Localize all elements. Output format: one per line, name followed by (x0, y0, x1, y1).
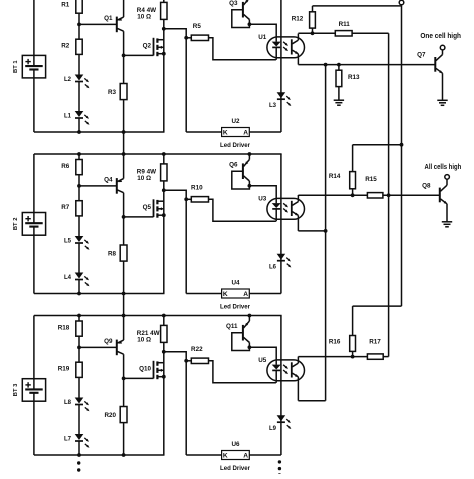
svg-text:Q11: Q11 (226, 323, 238, 330)
resistor R11 (335, 21, 352, 36)
node Q4 collector / gate (122, 215, 126, 219)
terminal all cells high (445, 175, 450, 180)
wire top rail section 3 (34, 315, 282, 317)
resistor R9 (137, 154, 167, 190)
svg-text:K: K (223, 130, 228, 137)
wire U5 collector up (297, 357, 299, 364)
node bottom rail / R3 (122, 130, 126, 134)
transistor Q7 (NPN) (417, 52, 443, 75)
wire U3 emitter down (297, 215, 299, 231)
led driver U4 (220, 280, 250, 311)
svg-text:R14: R14 (329, 173, 341, 180)
node Q1 collector / gate (122, 54, 126, 58)
transistor Q2 (N-MOSFET) (143, 29, 164, 56)
svg-text:R15: R15 (365, 176, 377, 183)
wire R20 to bottom rail (123, 423, 125, 455)
svg-text:R13: R13 (348, 74, 360, 81)
svg-text:R5: R5 (193, 23, 202, 30)
svg-text:R22: R22 (191, 346, 203, 353)
ground below Q7 (437, 99, 447, 101)
wire R2 to L2 (78, 54, 80, 75)
wire Q2 source to bottom rail (163, 54, 165, 132)
wire R18 to base node (78, 336, 80, 362)
transistor Q8 (NPN) (422, 182, 448, 205)
wire node down to led driver (185, 199, 187, 293)
svg-text:R1: R1 (61, 2, 70, 9)
wire U1 collector up (297, 34, 299, 41)
resistor R22 (186, 346, 208, 363)
node Q2 source (162, 52, 166, 56)
transistor Q3 (PNP diode-connected) (229, 0, 249, 28)
wire L8 to L7 (78, 405, 80, 435)
wire U1 emitter down (297, 54, 299, 65)
node R4 / drain (162, 27, 166, 31)
wire R11 to bus A (352, 32, 389, 34)
transistor Q6 (PNP diode-connected) (229, 160, 249, 190)
wire U5 emitter down (297, 377, 299, 401)
svg-text:Q1: Q1 (104, 15, 113, 22)
wire led driver A lead (249, 131, 281, 133)
optocoupler U3 (258, 195, 304, 221)
svg-text:U3: U3 (258, 195, 267, 202)
wire drain node right (164, 352, 186, 361)
led driver U6 (220, 441, 250, 472)
svg-text:U5: U5 (258, 357, 267, 364)
node base junction (77, 346, 81, 350)
node continuation dots left (77, 461, 80, 464)
svg-text:R17: R17 (369, 339, 381, 346)
battery BT2 (13, 154, 45, 294)
node top rail / R6 (77, 152, 81, 156)
node Q5 source (162, 213, 166, 217)
svg-text:R7: R7 (61, 204, 70, 211)
battery BT1 (13, 0, 45, 132)
wire Q5 source to bottom rail (163, 215, 165, 293)
node emitter bus / U3 (324, 229, 328, 233)
wire bus A vertical (388, 33, 390, 356)
svg-text:R3: R3 (108, 89, 117, 96)
svg-text:Q10: Q10 (139, 366, 151, 373)
svg-text:One cell high: One cell high (420, 33, 461, 40)
wire R7 to L5 (78, 216, 80, 237)
svg-text:R16: R16 (329, 339, 341, 346)
node Q3 collector-base (248, 22, 252, 26)
node top rail / R9 (162, 152, 166, 156)
node bottom rail / L1 (77, 130, 81, 134)
ground below Q8 (442, 221, 452, 223)
svg-text:R20: R20 (104, 412, 116, 419)
wire led driver K lead (186, 131, 221, 133)
wire led driver A lead (249, 454, 281, 456)
svg-text:L9: L9 (269, 426, 277, 432)
svg-text:10 Ω: 10 Ω (137, 14, 151, 21)
wire base node to Q4 (79, 185, 117, 187)
svg-text:U6: U6 (231, 441, 240, 448)
svg-text:U2: U2 (231, 118, 240, 125)
led L6 (269, 254, 292, 271)
led L3 (269, 92, 292, 109)
svg-text:K: K (223, 291, 228, 298)
wire L5 to L4 (78, 243, 80, 273)
wire Q4 emitter up (123, 154, 125, 179)
resistor R21 (137, 316, 167, 352)
led L7 (64, 434, 90, 449)
wire R5 to opto LED cathode (209, 38, 276, 60)
svg-text:L5: L5 (64, 239, 72, 245)
node base junction (77, 23, 81, 27)
resistor R15 (365, 176, 383, 198)
svg-text:K: K (223, 453, 228, 460)
node bottom rail / L4 (77, 292, 81, 296)
transistor Q9 (PNP) (104, 338, 124, 355)
resistor R6 (61, 154, 82, 175)
transistor Q4 (PNP) (104, 176, 124, 193)
wire bottom rail section 2 (34, 293, 165, 295)
wire U3 emitter to bus (298, 230, 325, 232)
transistor Q11 (PNP diode-connected) (226, 321, 249, 351)
resistor R8 (108, 245, 127, 261)
wire R22 to opto LED cathode (209, 361, 276, 383)
svg-text:A: A (243, 291, 248, 298)
node R22 left (184, 359, 188, 363)
svg-text:U4: U4 (231, 280, 240, 287)
svg-text:R11: R11 (339, 21, 351, 28)
transistor Q10 (N-MOSFET) (139, 352, 164, 379)
wire Q4 collector down (123, 193, 125, 245)
svg-text:A: A (243, 130, 248, 137)
wire R12 to terminal bus (313, 5, 402, 7)
node R9 / drain (162, 188, 166, 192)
node continuation dots right (278, 460, 281, 463)
wire L4 to bottom rail (78, 280, 80, 294)
wire gate feed (124, 54, 154, 56)
wire Q8 collector to terminal (446, 179, 448, 185)
node bus A / R15 (387, 193, 391, 197)
battery BT3 (13, 316, 45, 456)
wire U5 emitter to bus (298, 400, 325, 402)
wire Q11 emitter up (248, 316, 250, 322)
node R10 left (184, 197, 188, 201)
wire U3 collector up (297, 195, 299, 202)
led L5 (64, 236, 90, 251)
wire R14 to bus B (353, 144, 402, 146)
wire stack link to next section rail (123, 294, 125, 316)
led driver U2 (220, 118, 250, 149)
resistor R14 (329, 145, 356, 196)
wire Q1 collector down (123, 31, 125, 83)
svg-text:Q7: Q7 (417, 52, 426, 59)
svg-text:Q4: Q4 (104, 176, 113, 183)
svg-text:L4: L4 (64, 275, 72, 281)
wire led driver K lead (186, 293, 221, 295)
transistor Q5 (N-MOSFET) (143, 190, 164, 217)
wire indicator chain vertical (280, 316, 282, 456)
wire top rail section 2 (34, 153, 282, 155)
node top rail / Q6 emitter (248, 152, 252, 156)
wire Q1 emitter up (123, 0, 125, 17)
resistor R16 (329, 306, 356, 357)
node base junction (77, 184, 81, 188)
svg-text:Q5: Q5 (143, 204, 152, 211)
resistor R18 (58, 316, 82, 337)
wire R10 to opto LED cathode (209, 199, 276, 221)
led L4 (64, 273, 90, 288)
node top rail / stack link (122, 152, 126, 156)
svg-text:BT 3: BT 3 (13, 383, 19, 396)
node bottom rail / L7 (77, 453, 81, 457)
wire R19 to L8 (78, 377, 80, 398)
node emitter bus top (324, 63, 328, 67)
svg-text:A: A (243, 453, 248, 460)
optocoupler U5 (258, 357, 304, 383)
wire bottom rail section 1 (34, 131, 165, 133)
node R5 left (184, 36, 188, 40)
svg-text:R19: R19 (58, 365, 70, 372)
svg-text:L3: L3 (269, 103, 277, 109)
svg-text:R8: R8 (108, 250, 117, 257)
resistor R17 (367, 339, 383, 360)
wire bottom rail section 3 (34, 454, 165, 456)
svg-text:BT 1: BT 1 (13, 60, 19, 73)
wire all-cells-high line (383, 194, 440, 196)
svg-text:Q9: Q9 (104, 338, 113, 345)
svg-text:L6: L6 (269, 265, 277, 271)
svg-text:10 Ω: 10 Ω (137, 175, 151, 182)
led L1 (64, 111, 90, 126)
svg-text:Led Driver: Led Driver (220, 465, 250, 472)
svg-text:Q8: Q8 (422, 182, 431, 189)
resistor R4 (137, 0, 167, 29)
node top rail / R21 (162, 314, 166, 318)
svg-text:R6: R6 (61, 163, 70, 170)
wire base node to Q9 (79, 346, 117, 348)
wire Q9 collector down (123, 354, 125, 406)
node Q6 collector-base (248, 184, 252, 188)
svg-text:10 Ω: 10 Ω (137, 337, 151, 344)
resistor R1 (61, 0, 82, 13)
resistor R13 (336, 65, 360, 100)
wire R3 to bottom rail (123, 100, 125, 132)
wire drain node right (164, 190, 186, 199)
node Q10 source (162, 375, 166, 379)
svg-text:R18: R18 (58, 325, 70, 332)
resistor R3 (108, 84, 127, 100)
wire bus B vertical (401, 5, 403, 306)
svg-text:L1: L1 (64, 114, 72, 120)
resistor R5 (186, 23, 208, 40)
wire stack link to next section rail (123, 132, 125, 154)
wire Q6 emitter up (248, 154, 250, 160)
wire Q7 collector to terminal (442, 50, 444, 55)
node Q9 collector / gate (122, 377, 126, 381)
wire U3 collector line (298, 194, 367, 196)
wire R6 to base node (78, 175, 80, 201)
led L8 (64, 398, 90, 413)
wire L7 to bottom rail (78, 441, 80, 455)
wire node down to led driver (185, 361, 187, 455)
svg-text:Led Driver: Led Driver (220, 303, 250, 310)
svg-text:Q2: Q2 (143, 43, 152, 50)
terminal one cell high (440, 45, 445, 50)
wire R1 to base node (78, 13, 80, 39)
optocoupler U1 (258, 34, 304, 60)
node R16 / collector line (351, 355, 355, 359)
wire led driver A lead (249, 293, 281, 295)
wire R8 to bottom rail (123, 261, 125, 293)
wire Q6 to opto anode (249, 186, 276, 204)
svg-text:U1: U1 (258, 34, 267, 41)
node R14 / collector line (351, 193, 355, 197)
resistor R19 (58, 362, 82, 377)
node top rail / R18 (77, 314, 81, 318)
svg-text:Q6: Q6 (229, 162, 238, 169)
wire U1 collector line (298, 32, 335, 34)
led L9 (269, 415, 292, 432)
svg-text:L2: L2 (64, 77, 72, 83)
node R13 top (337, 63, 341, 67)
svg-text:R12: R12 (292, 15, 304, 22)
node R14 / bus B (400, 143, 404, 147)
resistor R7 (61, 201, 82, 216)
wire emitter bus vertical (325, 65, 327, 401)
wire node down to led driver (185, 38, 187, 132)
wire indicator chain vertical (280, 154, 282, 294)
wire L1 to bottom rail (78, 118, 80, 132)
wire base node to Q1 (79, 23, 117, 25)
svg-text:R2: R2 (61, 42, 70, 49)
terminal supply (399, 0, 404, 5)
wire one-cell-high line (298, 64, 435, 66)
wire Q8 emitter down (446, 204, 448, 222)
svg-text:Led Driver: Led Driver (220, 142, 250, 149)
wire R16 to bus B end (353, 305, 402, 307)
wire Q11 to opto anode (249, 347, 276, 365)
wire Q10 source to bottom rail (163, 377, 165, 455)
resistor R10 (186, 185, 208, 202)
wire indicator chain vertical (280, 0, 282, 132)
resistor R12 (292, 6, 316, 33)
svg-text:BT 2: BT 2 (13, 218, 19, 231)
node R21 / drain (162, 350, 166, 354)
node bottom rail / R8 (122, 292, 126, 296)
ground below R13 (334, 99, 344, 101)
wire Q7 emitter down (442, 73, 444, 100)
node R12 / collector line (311, 31, 315, 35)
svg-text:L8: L8 (64, 400, 72, 406)
wire Q3 to opto anode (249, 24, 276, 42)
wire U5 collector line (298, 356, 367, 358)
resistor R2 (61, 39, 82, 54)
node top rail / stack link (122, 314, 126, 318)
svg-text:L7: L7 (64, 437, 72, 443)
wire gate feed (124, 216, 154, 218)
wire L2 to L1 (78, 82, 80, 112)
node top rail / Q11 emitter (248, 314, 252, 318)
led L2 (64, 75, 90, 90)
wire drain node right (164, 29, 186, 38)
node Q11 collector-base (248, 345, 252, 349)
wire Q9 emitter up (123, 316, 125, 341)
resistor R20 (104, 407, 127, 423)
transistor Q1 (PNP) (104, 15, 124, 32)
node bottom rail / R20 (122, 453, 126, 457)
wire led driver K lead (186, 454, 221, 456)
svg-text:Q3: Q3 (229, 0, 238, 7)
wire gate feed (124, 377, 154, 379)
wire R17 to bus A end (383, 356, 388, 358)
svg-text:R10: R10 (191, 185, 203, 192)
svg-text:All cells high: All cells high (425, 164, 462, 171)
